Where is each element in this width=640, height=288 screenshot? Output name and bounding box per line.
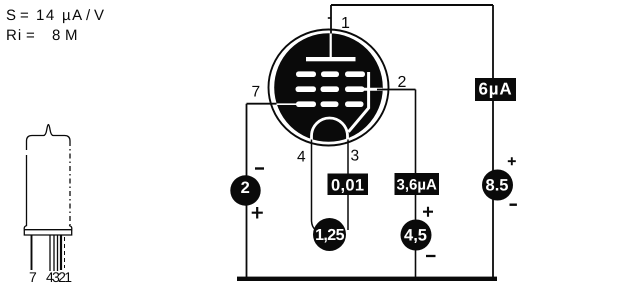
svg-text:8.5: 8.5 [486, 177, 509, 195]
minus sign (battery 4,5) [426, 255, 436, 257]
cathode / filament dome [312, 118, 348, 139]
svg-text:2: 2 [398, 74, 407, 91]
anode plate [306, 57, 356, 61]
svg-text:7: 7 [29, 269, 37, 285]
envelope body outline [27, 125, 71, 227]
meter box 0,01 [328, 174, 369, 196]
wire: pin 1 lead to top [330, 5, 332, 34]
wire: pin 4 lead down [312, 139, 316, 230]
wire: pin 3 lead down [347, 139, 349, 230]
plus sign (battery 8.5) [508, 157, 516, 165]
svg-text:=: = [26, 27, 35, 44]
wire: left vertical [246, 104, 248, 279]
pin 1 lead (envelope) [60, 235, 62, 270]
wire: top horizontal [331, 4, 493, 6]
svg-text:3: 3 [351, 148, 360, 165]
svg-text:1,25: 1,25 [315, 227, 344, 244]
grid g2 lead (white, to pin 2) [363, 88, 383, 91]
label S = 14 uA/V [6, 7, 104, 24]
pin 2 lead (envelope) [57, 235, 59, 271]
grid g3 row (top) [296, 71, 365, 77]
battery 1,25 V (filament) [313, 218, 346, 251]
svg-text:14: 14 [36, 7, 56, 24]
meter box 3,6uA [395, 173, 440, 195]
pin 2 lead over white slot [377, 89, 383, 91]
wire: bottom horizontal [237, 277, 497, 281]
battery 4,5 V [401, 220, 432, 251]
minus sign (battery 2) [255, 167, 264, 169]
internal bracket wire (white) [349, 72, 369, 132]
svg-text:1: 1 [341, 15, 350, 32]
plus sign (battery 4,5) [423, 207, 433, 217]
wire: right vertical [492, 5, 494, 279]
tube V1 symbol: black interior [274, 33, 383, 142]
grid g2 row (middle) [296, 86, 365, 92]
pin 3 lead (envelope) [53, 235, 55, 271]
grid g1 row (bottom) [296, 101, 364, 107]
label Ri = 8 M [6, 27, 78, 44]
svg-text:4,5: 4,5 [404, 227, 427, 245]
minus sign (battery 8.5) [510, 203, 517, 205]
svg-text:S: S [6, 7, 16, 24]
tube V1 symbol: envelope circle [269, 30, 389, 146]
svg-text:8: 8 [52, 27, 60, 44]
svg-text:=: = [20, 7, 29, 24]
svg-text:2: 2 [241, 179, 250, 197]
svg-text:/: / [86, 7, 91, 24]
tube V1 physical envelope (side view) [24, 125, 72, 272]
svg-text:M: M [65, 27, 78, 44]
svg-text:7: 7 [252, 84, 261, 101]
svg-text:6µA: 6µA [479, 80, 513, 99]
envelope body right edge (dashed) [69, 141, 71, 225]
envelope base flange [24, 226, 72, 230]
anode lead (white, to pin 1) [330, 34, 332, 59]
plus sign (battery 2) [252, 207, 263, 219]
pin 4 lead (envelope) [49, 235, 51, 271]
meter box 6uA [475, 78, 516, 101]
svg-text:4: 4 [297, 149, 306, 166]
svg-text:µA: µA [62, 7, 84, 24]
wire: pin 2 horizontal [381, 89, 416, 91]
pin 7 lead (envelope) [31, 235, 33, 270]
grid g1 lead (white, to pin 7) [277, 103, 298, 105]
svg-text:V: V [94, 7, 104, 24]
wire: pin 7 horizontal [247, 103, 280, 105]
wire: pin 2 vertical branch [415, 90, 417, 280]
svg-text:Ri: Ri [6, 27, 22, 44]
battery 8.5 V [482, 170, 513, 201]
svg-text:4321: 4321 [46, 269, 72, 285]
battery 2 V [230, 175, 260, 205]
svg-text:3,6µA: 3,6µA [397, 177, 437, 194]
svg-text:0,01: 0,01 [331, 177, 364, 195]
